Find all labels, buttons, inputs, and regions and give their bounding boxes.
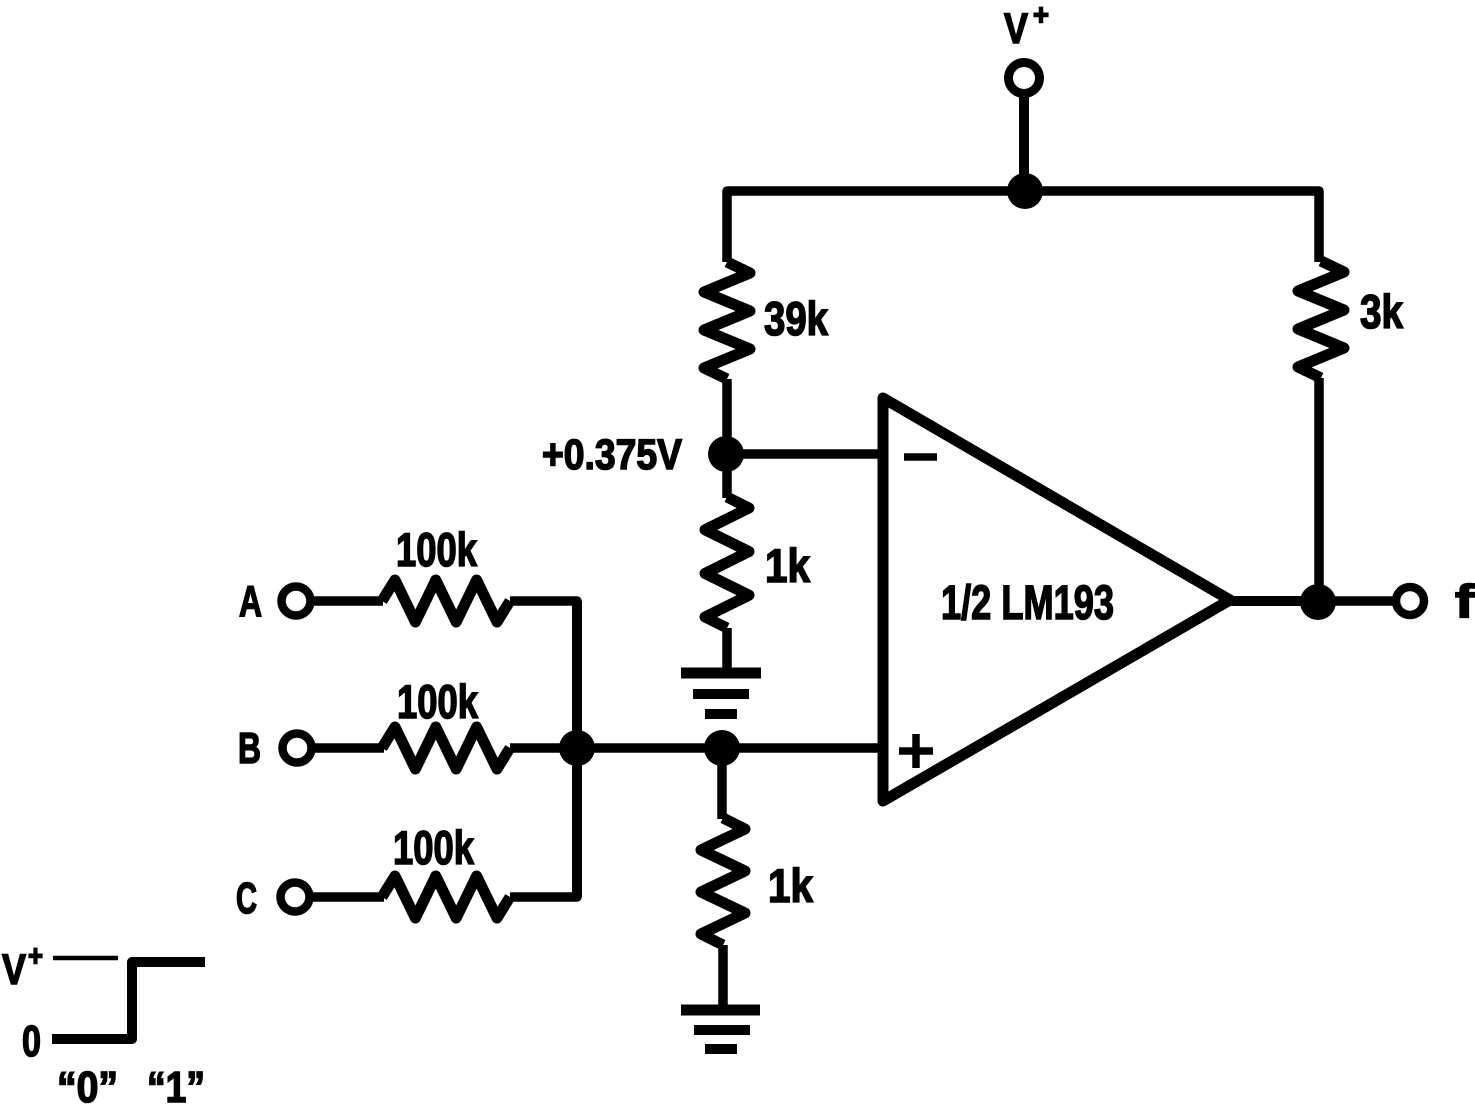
op-amp U1 1/2 LM193 [883,398,1230,801]
wire top rail V+ [727,191,1319,262]
svg-text:1k: 1k [765,539,811,592]
wire V+ terminal to rail [1019,95,1029,191]
svg-text:3k: 3k [1360,285,1404,338]
svg-text:“0”: “0” [57,1063,118,1107]
wire 100k A to bus [510,601,577,650]
wire 1k upper to ground [722,628,732,673]
svg-text:+0.375V: +0.375V [542,431,682,479]
svg-text:39k: 39k [764,292,829,345]
svg-text:A: A [239,577,262,626]
wire 1k lower to ground [718,945,728,1010]
resistor 100k C [382,876,510,918]
wire 100k C to bus [510,850,577,897]
svg-text:f: f [1455,575,1475,627]
terminal C [281,883,310,912]
svg-text:B: B [238,724,261,773]
junction V+ rail [1007,173,1043,209]
wire 100k B to bus junction [510,743,577,753]
svg-text:1/2 LM193: 1/2 LM193 [941,577,1114,630]
svg-text:+: + [28,940,43,973]
wire junction to summing node [577,743,722,753]
wire waveform step 0 to 1 [52,962,205,1039]
wire node to inverting input [726,449,886,459]
svg-text:100k: 100k [396,523,478,576]
wire op-amp output [1230,596,1318,606]
svg-text:+: + [1033,0,1049,32]
svg-text:C: C [236,874,257,923]
wire C terminal to resistor [313,892,384,902]
terminal f [1396,587,1424,615]
node +0.375V [708,436,744,472]
terminal B [283,734,312,763]
junction bus B [559,730,595,766]
wire node to 1k lower [717,748,727,819]
wire node to 1k upper [722,454,732,498]
plus input marker [899,747,933,755]
minus input marker [904,453,937,461]
resistor 3k [1298,261,1344,378]
svg-text:“1”: “1” [147,1063,205,1107]
svg-text:1k: 1k [768,859,814,912]
svg-text:0: 0 [22,1017,41,1066]
node summing [704,730,740,766]
terminal A [282,587,311,616]
junction output [1300,584,1336,620]
svg-text:100k: 100k [393,821,475,874]
ground middle [681,668,761,679]
wire junction to output terminal [1318,596,1393,606]
wire B terminal to resistor [315,743,384,753]
svg-text:100k: 100k [397,675,479,728]
wire A terminal to resistor [314,596,383,606]
resistor 100k A [382,580,510,622]
wire output junction to 3k [1314,378,1324,602]
resistor 39k [704,262,750,379]
wire bus vertical [572,601,582,897]
resistor 1k upper [705,497,749,628]
resistor 1k lower [701,818,745,945]
wire V+ level reference line [53,956,118,961]
wire 39k to node [722,379,732,455]
svg-text:V: V [1004,5,1028,53]
terminal V+ [1009,63,1040,94]
svg-text:V: V [2,946,26,994]
resistor 100k B [382,727,510,769]
ground bottom [681,1005,760,1016]
wire node to non-inverting input [722,743,886,753]
